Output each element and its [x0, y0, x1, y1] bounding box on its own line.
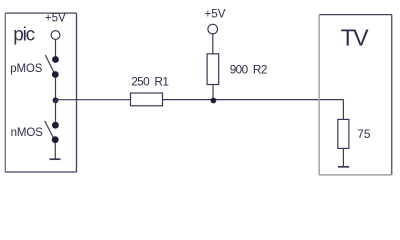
resistor R2 body [207, 54, 219, 85]
wire 75 ohm resistor to ground [342, 148, 344, 166]
wire pMOS to output node [55, 78, 57, 100]
svg-text:+5V: +5V [205, 8, 226, 21]
wire output node to resistor R1 [56, 99, 131, 101]
transistor pMOS switch lever [45, 55, 54, 73]
wire TV input corner down to 75 ohm resistor [342, 100, 344, 120]
svg-text:nMOS: nMOS [11, 127, 44, 139]
node junction dot (R2 / signal wire) [211, 98, 217, 104]
+5V supply terminal circle (R2) [208, 24, 218, 34]
TV box outline [319, 15, 392, 175]
transistor nMOS switch lever [45, 121, 54, 138]
svg-text:250 R1: 250 R1 [131, 75, 168, 89]
node junction dot (pic output) [53, 97, 59, 103]
ground symbol (pic) [50, 158, 61, 160]
svg-text:+5V: +5V [45, 11, 66, 24]
wire R1 to TV input node [163, 99, 344, 101]
svg-text:pic: pic [13, 24, 34, 45]
svg-text:pMOS: pMOS [10, 63, 43, 75]
pic box U1 (microcontroller outline) [5, 13, 76, 172]
transistor pMOS switch bottom contact dot [52, 71, 59, 78]
wire R2 to node [212, 85, 214, 100]
+5V supply terminal circle (pic) [51, 31, 60, 40]
wire +5V terminal to R2 [212, 34, 214, 54]
wire output node down to nMOS [55, 100, 57, 122]
resistor R1 body [131, 93, 163, 106]
transistor pMOS switch top contact dot [52, 56, 59, 63]
svg-text:TV: TV [341, 24, 370, 50]
transistor nMOS switch top contact dot [52, 122, 59, 129]
svg-text:900 R2: 900 R2 [230, 63, 267, 77]
resistor 75 body [338, 119, 349, 148]
wire nMOS to ground [54, 143, 56, 159]
svg-text:75: 75 [357, 127, 371, 141]
ground symbol (TV) [338, 166, 349, 168]
transistor nMOS switch bottom contact dot [52, 136, 59, 143]
wire +5V terminal to pMOS [55, 39, 57, 56]
